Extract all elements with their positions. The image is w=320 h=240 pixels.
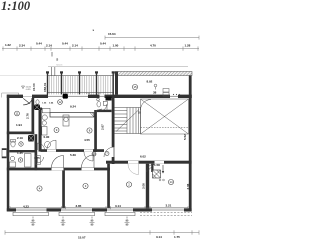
svg-text:9.24: 9.24: [70, 105, 76, 109]
svg-text:1.75: 1.75: [174, 235, 180, 239]
svg-text:3.06: 3.06: [186, 183, 190, 189]
overall dimension 15.64: [105, 36, 199, 40]
WC left toilet: [36, 100, 39, 104]
wing top hatched wall: [115, 72, 192, 76]
svg-text:0.44: 0.44: [62, 42, 68, 46]
kitchen door: [47, 149, 56, 151]
room2 door: [128, 161, 139, 164]
svg-text:158,01: 158,01: [43, 82, 47, 92]
balcony side double lines: [51, 67, 53, 76]
svg-text:Schnitt: Schnitt: [56, 64, 63, 67]
svg-text:4.55: 4.55: [84, 138, 90, 142]
svg-text:0.44: 0.44: [100, 42, 106, 46]
svg-text:4.70: 4.70: [150, 44, 156, 48]
interior dim line above bottom wall: [10, 206, 188, 209]
svg-text:15.64: 15.64: [108, 32, 116, 36]
top dimension chain line: [2, 46, 199, 50]
corridor south wall (left part, top wall of rooms 4/3): [7, 168, 110, 171]
svg-text:1.75: 1.75: [34, 156, 40, 160]
black pier on top wall: [63, 94, 68, 99]
svg-text:11: 11: [16, 112, 19, 116]
svg-text:2.34: 2.34: [19, 44, 25, 48]
wing left wall: [115, 72, 118, 95]
lobby wall room14: [151, 164, 153, 172]
bath doors: [38, 143, 45, 150]
top exterior wall: [7, 95, 192, 98]
svg-text:-0.35: -0.35: [26, 89, 32, 91]
svg-text:0.44: 0.44: [36, 42, 42, 46]
room2 right wall: [146, 164, 149, 209]
level mark ±0.00: [22, 83, 37, 91]
corridor-hall door: [112, 147, 114, 157]
svg-text:S: S: [56, 58, 58, 62]
svg-text:5.39: 5.39: [70, 153, 76, 157]
WC small bottom wall: [35, 108, 43, 110]
svg-text:0.90: 0.90: [44, 135, 50, 139]
left exterior bump: [2, 149, 7, 159]
stair hall X room: [141, 99, 189, 134]
WC right fixtures: [97, 101, 101, 107]
svg-text:1:100: 1:100: [1, 0, 31, 13]
WC right col bottom wall: [97, 110, 112, 112]
dashed band bottom right: [140, 213, 192, 216]
window openings in top wall: [48, 94, 105, 98]
wing interior small rects: [163, 89, 169, 93]
svg-text:6.02: 6.02: [140, 155, 146, 159]
svg-text:2.67: 2.67: [101, 124, 105, 130]
svg-text:12: 12: [58, 100, 62, 104]
WC top shafts: [34, 105, 40, 111]
entrance door opening: [23, 94, 32, 98]
hall-lobby door: [155, 161, 165, 164]
svg-text:1.35: 1.35: [17, 151, 23, 155]
bath partition: [9, 150, 34, 152]
bottom exterior wall: [7, 208, 192, 211]
svg-text:1.58: 1.58: [154, 163, 160, 167]
upper outline line (roof edge): [48, 66, 188, 68]
door notch in hall top wall: [170, 94, 178, 98]
svg-text:38: 38: [153, 91, 157, 95]
hall left wall: [112, 98, 115, 147]
svg-text:1.28: 1.28: [185, 44, 191, 48]
svg-text:2.19: 2.19: [17, 136, 23, 140]
WC door top: [100, 104, 107, 111]
svg-text:1.22: 1.22: [5, 43, 11, 47]
bath right wall: [35, 134, 38, 170]
svg-text:1.94: 1.94: [16, 123, 22, 127]
room8 right wall: [94, 110, 97, 152]
svg-text:2.14: 2.14: [72, 44, 78, 48]
svg-text:3.14: 3.14: [115, 204, 121, 208]
kitchen left wall: [39, 108, 42, 152]
svg-text:14: 14: [169, 180, 173, 184]
svg-text:3.14: 3.14: [156, 235, 162, 239]
lobby hatched shaft room14: [153, 170, 161, 178]
rooms 8/9 bottom wall: [41, 149, 105, 152]
right exterior wall: [189, 72, 192, 212]
bath fixtures room6: [10, 156, 14, 160]
window sills below wall: [13, 212, 135, 215]
wardrobe long rect: [50, 113, 94, 118]
wall between rooms 4|3: [62, 170, 65, 208]
left exterior wall: [7, 95, 10, 212]
room8 top door arc: [94, 109, 102, 117]
svg-text:2.76: 2.76: [26, 113, 30, 119]
toilet room5: [11, 141, 15, 147]
room8 door: [84, 149, 93, 151]
section marker S: [52, 52, 63, 67]
small marker 38 on wing: [154, 84, 157, 87]
svg-text:15.07: 15.07: [78, 236, 86, 240]
wall between rooms 3|2: [107, 164, 110, 209]
room4 door: [52, 168, 64, 170]
room3 door: [82, 168, 95, 170]
bath shaft: [28, 135, 34, 142]
svg-text:5.52: 5.52: [183, 134, 187, 140]
window labels: [31, 217, 130, 227]
kitchen counter: [42, 108, 50, 113]
svg-text:3.21: 3.21: [166, 204, 172, 208]
svg-text:8.92: 8.92: [147, 80, 153, 84]
room11 right wall: [32, 98, 35, 135]
svg-text:1.00: 1.00: [113, 44, 119, 48]
svg-text:2.14: 2.14: [46, 44, 52, 48]
bottom dimension line: [5, 230, 199, 234]
hall door arc: [141, 100, 152, 111]
entrance porch steps: [2, 93, 19, 95]
room11 bottom wall: [7, 132, 34, 135]
left faint line: [0, 74, 48, 76]
svg-text:3.85: 3.85: [76, 204, 82, 208]
hall south wall (right part): [106, 161, 192, 164]
svg-text:15: 15: [133, 85, 137, 89]
arrow in lobby: [162, 165, 164, 173]
svg-text:±0.00: ±0.00: [32, 83, 36, 91]
balcony railing: [47, 76, 114, 95]
svg-text:3.06: 3.06: [142, 183, 146, 189]
